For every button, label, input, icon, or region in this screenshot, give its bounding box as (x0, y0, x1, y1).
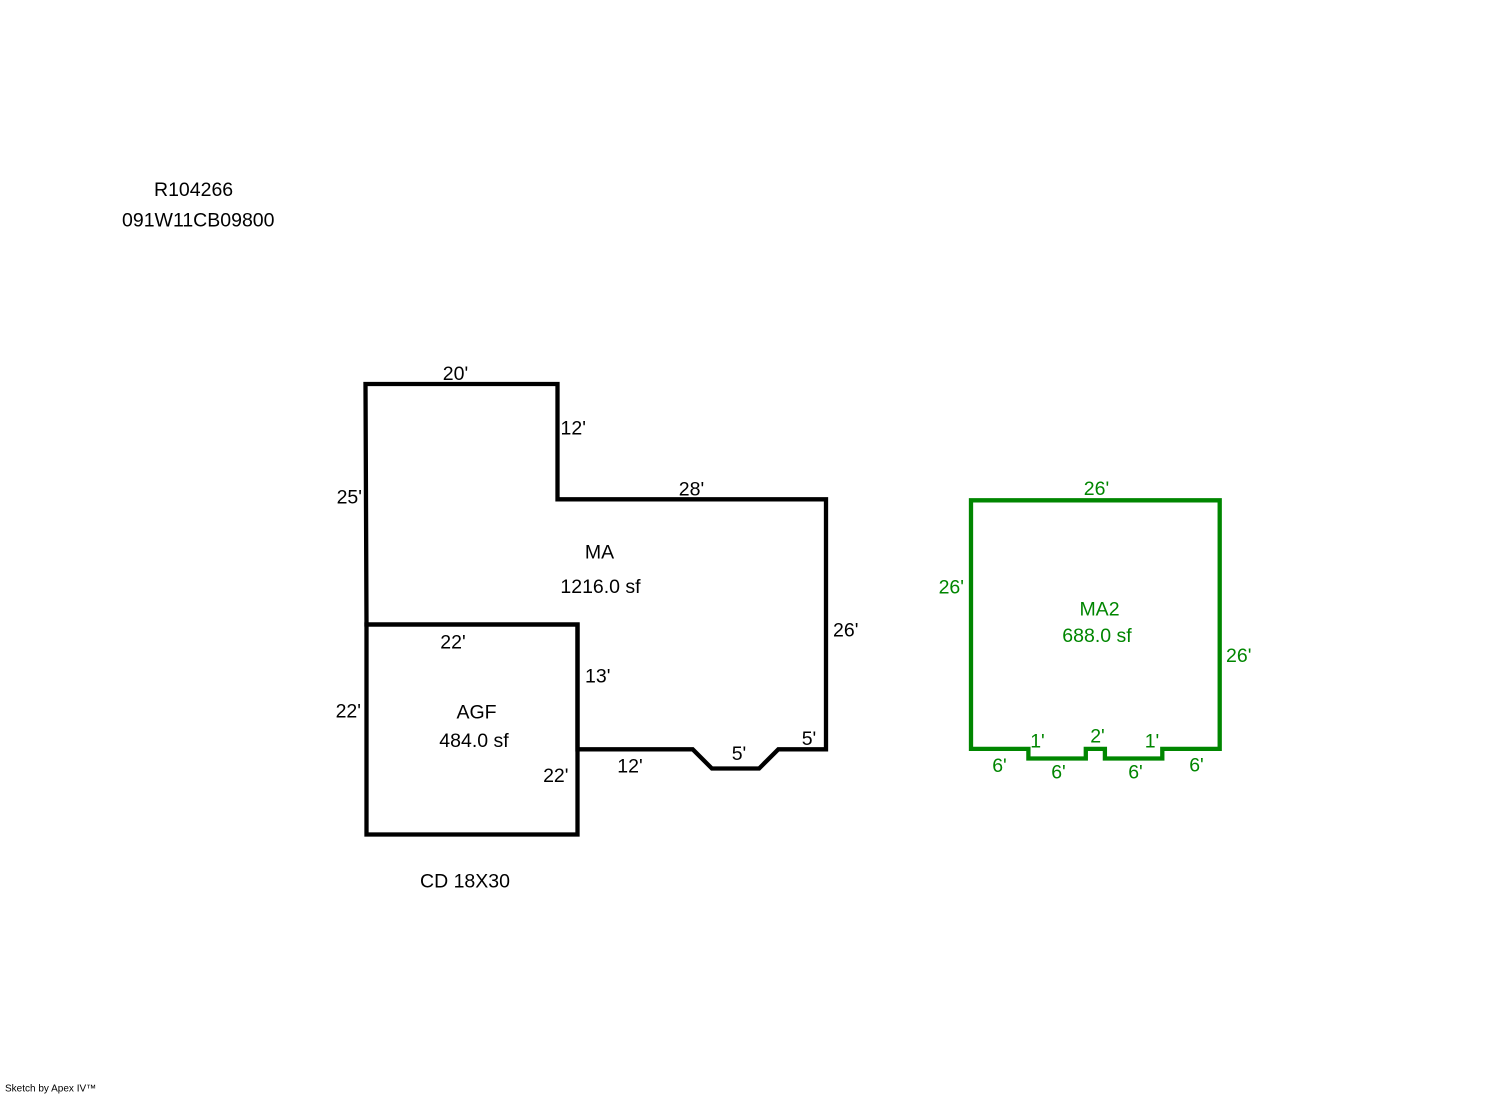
svg-text:6': 6' (1051, 762, 1066, 784)
svg-text:6': 6' (992, 755, 1007, 777)
svg-text:MA: MA (585, 542, 614, 564)
svg-text:6': 6' (1128, 762, 1143, 784)
svg-text:20': 20' (443, 363, 468, 385)
svg-text:5': 5' (802, 728, 817, 750)
svg-text:CD 18X30: CD 18X30 (420, 871, 510, 893)
svg-text:26': 26' (1226, 645, 1251, 667)
svg-text:22': 22' (336, 701, 361, 723)
svg-text:12': 12' (561, 418, 586, 440)
svg-text:28': 28' (679, 479, 704, 501)
svg-text:13': 13' (585, 666, 610, 688)
svg-text:1': 1' (1145, 731, 1160, 753)
svg-text:1216.0 sf: 1216.0 sf (560, 576, 641, 598)
svg-text:484.0 sf: 484.0 sf (439, 730, 509, 752)
svg-text:22': 22' (440, 632, 465, 654)
AGF area outline (367, 625, 578, 835)
svg-text:26': 26' (1084, 478, 1109, 500)
MA area outline (366, 384, 827, 769)
svg-text:MA2: MA2 (1079, 599, 1119, 621)
svg-text:2': 2' (1090, 726, 1105, 748)
svg-text:26': 26' (833, 620, 858, 642)
svg-text:688.0 sf: 688.0 sf (1062, 625, 1132, 647)
svg-text:12': 12' (617, 756, 642, 778)
svg-text:26': 26' (939, 577, 964, 599)
MA2 area outline (green) (971, 500, 1220, 758)
svg-text:22': 22' (543, 765, 568, 787)
svg-text:25': 25' (337, 487, 362, 509)
svg-text:AGF: AGF (456, 702, 496, 724)
svg-text:5': 5' (732, 743, 747, 765)
svg-text:1': 1' (1030, 731, 1045, 753)
svg-text:6': 6' (1189, 755, 1204, 777)
svg-text:091W11CB09800: 091W11CB09800 (122, 210, 275, 232)
svg-text:Sketch by Apex IV™: Sketch by Apex IV™ (5, 1084, 96, 1094)
svg-text:R104266: R104266 (154, 179, 233, 201)
